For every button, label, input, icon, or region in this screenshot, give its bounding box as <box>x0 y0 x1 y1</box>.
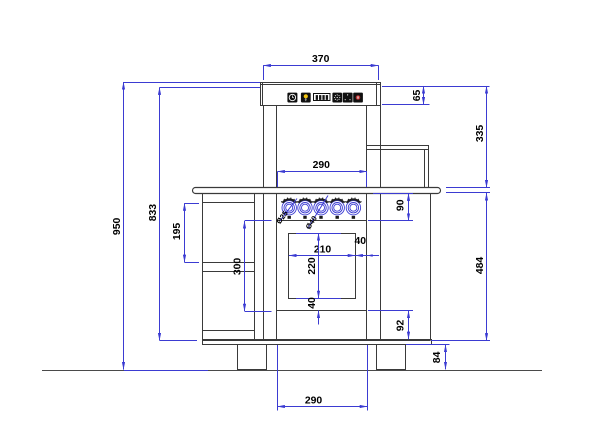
dim 335 backsplash height <box>446 187 490 189</box>
left support post <box>263 105 265 340</box>
timer clock icon <box>287 93 297 103</box>
control panel box <box>261 83 381 106</box>
left cabinet top shelf line <box>202 202 255 204</box>
oven drawer line <box>276 310 366 312</box>
shelf support leg <box>424 150 426 188</box>
right side shelf <box>367 145 429 147</box>
dim 65 panel height <box>382 86 490 88</box>
cabinet right wall <box>430 194 432 344</box>
dim 195 upper shelf spacing <box>184 203 199 205</box>
dim 300 oven door height <box>245 220 272 222</box>
hob knob 2 <box>297 198 313 219</box>
dim 210 window width <box>289 255 355 257</box>
right foot <box>377 345 406 370</box>
hob knob 4 <box>329 198 345 219</box>
heat button <box>353 93 363 103</box>
fan/star button <box>332 93 342 103</box>
left foot <box>238 345 267 370</box>
leader dia 40 <box>308 196 328 229</box>
grill button <box>343 93 353 103</box>
dim 370 panel width <box>263 65 265 80</box>
hob knob 3 <box>313 198 329 219</box>
svg-text:484: 484 <box>475 257 486 275</box>
svg-text:300: 300 <box>233 258 244 276</box>
countertop slab <box>193 188 441 194</box>
svg-text:950: 950 <box>112 218 123 236</box>
dim 220 window height <box>296 233 341 235</box>
dim 484 body height <box>446 192 490 194</box>
svg-text:40: 40 <box>307 297 318 309</box>
dim 92 drawer height <box>368 310 413 312</box>
leader dia 25 <box>280 199 297 221</box>
lamp icon <box>301 93 311 103</box>
dim 950 overall height <box>124 82 260 84</box>
dim 833 cabinet height <box>160 87 260 89</box>
svg-text:833: 833 <box>148 204 159 222</box>
oven door window <box>289 234 356 299</box>
svg-text:92: 92 <box>396 320 407 332</box>
left cabinet bottom shelf line <box>202 330 255 332</box>
svg-text:84: 84 <box>432 351 443 363</box>
ground line <box>42 370 542 372</box>
dim 40 window side margin <box>355 255 379 257</box>
hob knob 1 <box>281 198 297 219</box>
right support post <box>366 105 368 340</box>
svg-text:195: 195 <box>172 223 183 241</box>
dim 290 hob opening width <box>277 172 279 187</box>
cabinet bottom slab <box>203 340 432 345</box>
svg-text:40: 40 <box>355 236 367 247</box>
left cabinet middle shelf board <box>202 262 255 264</box>
dim 40 below window <box>318 310 320 324</box>
svg-text:220: 220 <box>307 257 318 275</box>
svg-text:65: 65 <box>412 90 423 102</box>
svg-text:210: 210 <box>314 244 332 255</box>
left cabinet partition <box>254 194 256 340</box>
dim 290 feet spacing <box>277 345 279 411</box>
hob knob panel bottom line <box>276 220 366 222</box>
svg-text:370: 370 <box>312 54 330 65</box>
hob knob 5 <box>345 198 361 219</box>
svg-text:335: 335 <box>475 125 486 143</box>
svg-text:290: 290 <box>305 395 323 406</box>
svg-text:290: 290 <box>313 160 331 171</box>
digital display <box>314 94 331 101</box>
cabinet left wall <box>202 194 204 344</box>
dim 84 plinth height <box>406 344 450 346</box>
dim 90 knob panel height <box>373 193 413 195</box>
svg-text:90: 90 <box>396 199 407 211</box>
